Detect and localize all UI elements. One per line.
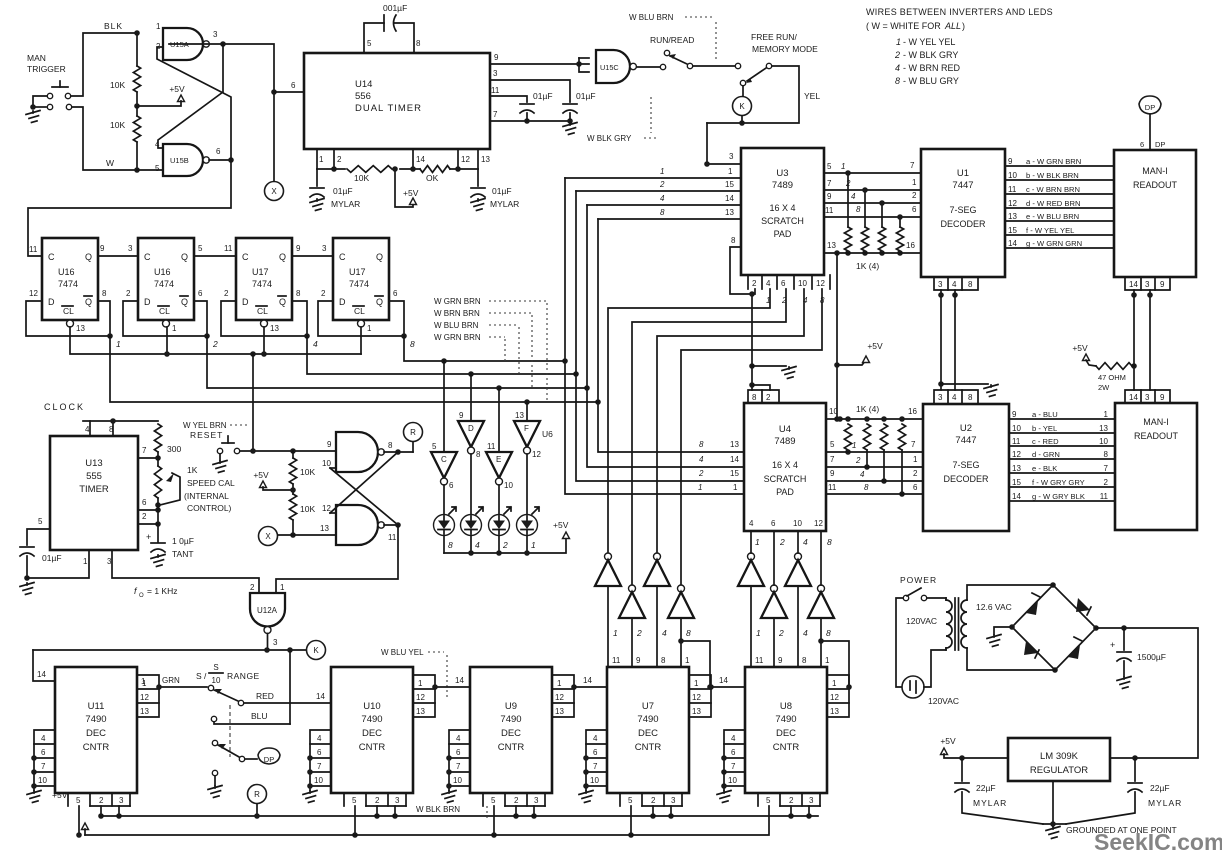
wire U1 pin13 segment e <box>1005 212 1114 221</box>
wire D loop FF1 <box>26 289 110 336</box>
svg-text:11: 11 <box>1008 185 1017 194</box>
wire <box>938 290 944 390</box>
svg-text:RUN/READ: RUN/READ <box>650 35 694 45</box>
switch S range <box>208 685 243 705</box>
svg-text:D: D <box>48 297 55 307</box>
svg-text:D: D <box>339 297 346 307</box>
ground <box>782 367 796 379</box>
ground <box>984 385 998 397</box>
svg-text:11: 11 <box>487 442 496 451</box>
svg-text:6: 6 <box>291 81 296 90</box>
svg-text:7490: 7490 <box>85 714 106 725</box>
svg-text:YEL: YEL <box>804 91 820 101</box>
wire U2 pin9 segment a <box>1009 410 1115 419</box>
resistor 1K f <box>863 424 870 470</box>
stub cells U1 bottom <box>934 277 978 290</box>
svg-text:5: 5 <box>432 442 437 451</box>
ground <box>1046 827 1060 839</box>
svg-text:7: 7 <box>1104 464 1109 473</box>
wire RESET line <box>240 448 336 454</box>
wire U1 pin14 segment g <box>1005 239 1114 248</box>
label S/S10 RANGE <box>196 663 260 685</box>
svg-text:5: 5 <box>367 39 372 48</box>
wire <box>526 454 528 514</box>
flip-flop U17 7474 #3 <box>236 238 292 327</box>
svg-text:3: 3 <box>273 638 278 647</box>
wire U3 pin8 loop <box>730 236 752 294</box>
svg-text:13: 13 <box>481 155 490 164</box>
svg-text:8: 8 <box>752 393 757 402</box>
svg-text:10: 10 <box>1099 437 1108 446</box>
svg-text:CL: CL <box>63 306 74 316</box>
wire <box>491 806 497 838</box>
svg-text:10: 10 <box>38 776 47 785</box>
svg-text:BLK: BLK <box>104 21 123 31</box>
flip-flop U16 7474 #2 <box>138 238 194 327</box>
svg-text:9: 9 <box>459 411 464 420</box>
ground <box>442 791 456 803</box>
svg-text:READOUT: READOUT <box>1133 180 1178 190</box>
svg-text:1: 1 <box>531 540 536 550</box>
svg-text:1: 1 <box>172 324 177 333</box>
svg-text:DECODER: DECODER <box>940 219 986 229</box>
svg-text:1: 1 <box>367 324 372 333</box>
wire U2 pin14 segment g <box>1009 492 1115 501</box>
svg-text:DECODER: DECODER <box>943 474 989 484</box>
svg-text:+5V: +5V <box>940 736 956 746</box>
wire U13 pin2 <box>138 512 158 524</box>
wire pin3 <box>490 69 570 102</box>
svg-text:4: 4 <box>749 519 754 528</box>
svg-text:8: 8 <box>968 393 973 402</box>
svg-text:14: 14 <box>1129 393 1138 402</box>
svg-text:10K: 10K <box>300 467 315 477</box>
stub cells U9 right <box>552 675 574 717</box>
svg-text:S: S <box>213 663 218 672</box>
svg-text:7490: 7490 <box>500 714 521 725</box>
svg-text:12: 12 <box>29 289 38 298</box>
svg-text:1: 1 <box>841 162 845 171</box>
wire <box>952 290 958 390</box>
svg-text:3: 3 <box>395 796 400 805</box>
+5V (regulator) <box>940 736 1008 761</box>
flip-flop U17 7474 #4 <box>333 238 389 327</box>
svg-text:U6: U6 <box>542 429 553 439</box>
svg-text:1: 1 <box>1104 410 1109 419</box>
wire U3-U1 line1 <box>824 161 921 173</box>
svg-text:1: 1 <box>116 339 121 349</box>
svg-text:F: F <box>524 424 529 433</box>
svg-text:WIRES BETWEEN INVERTERS AND LE: WIRES BETWEEN INVERTERS AND LEDS <box>866 7 1053 17</box>
svg-text:1K (4): 1K (4) <box>856 404 879 414</box>
svg-text:1: 1 <box>83 557 88 566</box>
wire Qb loop FF1 <box>98 289 121 349</box>
svg-text:6: 6 <box>912 205 917 214</box>
label W GRN BRN a <box>434 297 547 403</box>
wire U13 top pins <box>83 418 158 436</box>
svg-text:12: 12 <box>322 504 331 513</box>
resistor 1K a <box>844 170 851 256</box>
svg-text:2: 2 <box>142 512 147 521</box>
switch spare contact <box>212 770 217 785</box>
svg-text:Q: Q <box>279 252 286 262</box>
svg-text:13: 13 <box>827 241 836 250</box>
svg-text:9: 9 <box>327 440 332 449</box>
label CLOCK <box>44 402 85 412</box>
wire <box>994 627 1012 634</box>
svg-text:Q: Q <box>181 297 188 307</box>
inverter U5-3 <box>644 553 670 586</box>
wire U2 pin10 segment b <box>1009 424 1115 433</box>
+5V 47ohm feed <box>1072 343 1096 366</box>
svg-text:CL: CL <box>159 306 170 316</box>
svg-text:300: 300 <box>167 444 181 454</box>
svg-text:9: 9 <box>494 53 499 62</box>
svg-text:7490: 7490 <box>637 714 658 725</box>
nand gate U12A (vertical) <box>250 593 285 650</box>
svg-text:6: 6 <box>913 483 918 492</box>
wire U12A out <box>33 638 306 653</box>
svg-text:D: D <box>468 424 474 433</box>
wire <box>443 536 445 553</box>
wire U9-U7 <box>571 676 607 690</box>
svg-text:01µF: 01µF <box>42 553 62 563</box>
svg-text:6: 6 <box>41 748 46 757</box>
svg-text:1500µF: 1500µF <box>1137 652 1166 662</box>
labels inverter outputs 0 <box>612 628 691 665</box>
svg-text:- W BLK GRY: - W BLK GRY <box>903 50 958 60</box>
svg-text:5: 5 <box>628 796 633 805</box>
svg-text:12: 12 <box>1008 199 1017 208</box>
svg-text:1: 1 <box>852 441 856 450</box>
svg-text:8: 8 <box>416 39 421 48</box>
svg-text:W BLU BRN: W BLU BRN <box>434 321 479 330</box>
bridge rectifier <box>1009 585 1099 670</box>
inverter F <box>514 411 541 459</box>
svg-text:4: 4 <box>952 393 957 402</box>
label W BLU BRN <box>629 13 716 62</box>
wire cross-couple C <box>330 452 398 513</box>
svg-text:Q: Q <box>376 297 383 307</box>
svg-text:7: 7 <box>731 762 736 771</box>
svg-text:W GRN BRN: W GRN BRN <box>434 333 481 342</box>
svg-text:7489: 7489 <box>774 436 795 447</box>
svg-text:DEC: DEC <box>776 728 796 739</box>
svg-text:13: 13 <box>830 707 839 716</box>
label U14 <box>355 79 422 114</box>
wire U3 pin3 <box>704 152 741 167</box>
svg-text:4: 4 <box>699 455 704 464</box>
svg-text:01µF: 01µF <box>533 91 553 101</box>
svg-text:12: 12 <box>532 450 541 459</box>
wire U4 pin10 drop <box>798 531 808 553</box>
label GROUNDED AT ONE POINT <box>1066 825 1177 835</box>
AC plug 120VAC <box>902 676 959 706</box>
resistor 10K upper <box>110 30 141 109</box>
IC U8 7490 dec cntr <box>745 667 827 793</box>
label W BRN BRN <box>434 309 532 388</box>
svg-text:8: 8 <box>296 289 301 298</box>
svg-text:U16: U16 <box>58 267 75 277</box>
svg-text:2: 2 <box>250 583 255 592</box>
svg-text:+: + <box>146 532 151 542</box>
wire U4-U2 line3 <box>826 469 923 481</box>
svg-text:12: 12 <box>816 279 825 288</box>
svg-text:2: 2 <box>779 537 785 547</box>
svg-text:C: C <box>242 252 249 262</box>
svg-text:c - RED: c - RED <box>1032 437 1059 446</box>
svg-text:b - YEL: b - YEL <box>1032 424 1057 433</box>
svg-text:3: 3 <box>938 280 943 289</box>
svg-text:Q: Q <box>181 252 188 262</box>
svg-text:7490: 7490 <box>775 714 796 725</box>
node DP connector upper <box>1139 96 1165 150</box>
svg-text:8: 8 <box>827 537 832 547</box>
wire <box>330 512 336 514</box>
ground <box>563 123 577 135</box>
svg-text:8: 8 <box>1104 450 1109 459</box>
IC U1 7447 decoder <box>921 149 1005 277</box>
svg-text:1: 1 <box>698 483 702 492</box>
wire <box>76 806 82 838</box>
svg-text:2: 2 <box>126 289 131 298</box>
svg-text:U17: U17 <box>252 267 269 277</box>
nand gate U15A <box>156 22 218 60</box>
svg-text:9: 9 <box>778 656 783 665</box>
svg-text:U16: U16 <box>154 267 171 277</box>
svg-text:14: 14 <box>1129 280 1138 289</box>
svg-text:1: 1 <box>728 167 733 176</box>
svg-text:7489: 7489 <box>772 180 793 191</box>
svg-text:8: 8 <box>856 205 861 214</box>
wire FF1.Q-FF2.C <box>98 244 138 256</box>
switch FREE RUN/MEMORY <box>740 63 771 85</box>
capacitor 10uF TANT <box>146 532 194 559</box>
svg-text:DP: DP <box>1155 140 1165 149</box>
ground <box>987 635 1001 647</box>
svg-text:1: 1 <box>557 679 562 688</box>
svg-text:6: 6 <box>771 519 776 528</box>
resistor 10K (U14) <box>347 166 392 183</box>
svg-text:1: 1 <box>319 155 324 164</box>
stub cells U3 bottom <box>748 275 830 305</box>
svg-text:13: 13 <box>270 324 279 333</box>
svg-text:2: 2 <box>212 339 218 349</box>
svg-text:4: 4 <box>475 540 480 550</box>
svg-text:5: 5 <box>38 517 43 526</box>
svg-text:13: 13 <box>730 440 739 449</box>
svg-text:(INTERNAL: (INTERNAL <box>184 491 229 501</box>
wire <box>71 21 137 96</box>
svg-text:6: 6 <box>449 481 454 490</box>
svg-text:9: 9 <box>1160 393 1165 402</box>
wire <box>498 536 500 553</box>
svg-text:K: K <box>313 646 319 655</box>
svg-text:9: 9 <box>296 244 301 253</box>
ground <box>471 199 485 211</box>
svg-text:2: 2 <box>855 456 861 465</box>
wire YEL <box>707 66 820 126</box>
svg-text:11: 11 <box>828 483 837 492</box>
resistor 1K g <box>880 424 887 484</box>
svg-text:+: + <box>1110 640 1115 650</box>
svg-text:2: 2 <box>636 628 642 638</box>
svg-text:9: 9 <box>1008 157 1013 166</box>
wire bus1 to U3 pin1 <box>565 167 741 178</box>
svg-text:TANT: TANT <box>172 549 194 559</box>
svg-text:MAN-I: MAN-I <box>1143 417 1169 427</box>
wire CL bus <box>70 324 372 357</box>
svg-text:11: 11 <box>1100 492 1109 501</box>
svg-text:7: 7 <box>910 161 915 170</box>
svg-text:W BLU YEL: W BLU YEL <box>381 648 424 657</box>
svg-text:8: 8 <box>864 483 869 492</box>
svg-text:14: 14 <box>719 676 728 685</box>
svg-text:12: 12 <box>814 519 823 528</box>
svg-text:CNTR: CNTR <box>635 742 662 753</box>
switch power <box>903 588 926 601</box>
wire U4 right pin10 rail <box>826 404 923 422</box>
svg-text:2: 2 <box>894 50 900 60</box>
wire <box>773 618 775 667</box>
svg-text:10: 10 <box>453 776 462 785</box>
svg-text:2: 2 <box>698 469 704 478</box>
svg-text:1: 1 <box>733 483 738 492</box>
svg-text:MYLAR: MYLAR <box>1148 798 1182 808</box>
svg-text:ALL: ALL <box>944 21 961 31</box>
svg-text:10K: 10K <box>354 173 369 183</box>
svg-text:4: 4 <box>85 425 90 434</box>
svg-text:a - BLU: a - BLU <box>1032 410 1058 419</box>
inverter U6-2 <box>761 585 787 618</box>
svg-text:REGULATOR: REGULATOR <box>1030 765 1088 776</box>
wire <box>788 806 794 819</box>
svg-text:22µF: 22µF <box>1150 783 1170 793</box>
svg-text:C: C <box>144 252 151 262</box>
ground <box>27 791 41 803</box>
svg-text:8: 8 <box>102 289 107 298</box>
svg-text:14: 14 <box>730 455 739 464</box>
node X connector <box>265 89 284 200</box>
svg-text:15: 15 <box>1012 478 1021 487</box>
wire <box>924 650 946 687</box>
svg-text:13: 13 <box>1099 424 1108 433</box>
svg-text:6: 6 <box>1140 140 1144 149</box>
svg-text:1: 1 <box>613 628 618 638</box>
svg-text:11: 11 <box>825 206 834 215</box>
wire U3 pin4 route <box>608 289 770 553</box>
ground <box>151 555 165 567</box>
label W YEL BRN <box>183 421 248 430</box>
svg-text:8: 8 <box>661 656 666 665</box>
svg-text:13: 13 <box>320 524 329 533</box>
wire <box>384 449 413 455</box>
svg-text:4: 4 <box>41 734 46 743</box>
svg-text:1 0µF: 1 0µF <box>172 536 194 546</box>
svg-text:10: 10 <box>793 519 802 528</box>
LED F <box>517 507 540 550</box>
svg-text:16: 16 <box>906 241 915 250</box>
wire secondary bottom <box>967 648 1058 673</box>
wire <box>656 586 658 667</box>
svg-text:MEMORY MODE: MEMORY MODE <box>752 44 818 54</box>
svg-text:e - W BLU BRN: e - W BLU BRN <box>1026 212 1079 221</box>
svg-text:7-SEG: 7-SEG <box>952 460 979 470</box>
svg-text:+5V: +5V <box>52 790 68 800</box>
svg-text:556: 556 <box>355 91 371 102</box>
svg-text:Q: Q <box>279 297 286 307</box>
svg-text:7: 7 <box>593 762 598 771</box>
svg-text:10: 10 <box>1012 424 1021 433</box>
svg-text:11: 11 <box>388 533 397 542</box>
svg-text:DP: DP <box>1145 103 1155 112</box>
svg-text:7: 7 <box>827 179 832 188</box>
inverter U5-1 <box>595 553 621 586</box>
wire <box>628 806 634 838</box>
svg-text:14: 14 <box>725 194 734 203</box>
label 120VAC primary <box>906 616 937 626</box>
wire U8 pin1 loop <box>818 638 852 690</box>
svg-text:10: 10 <box>798 279 807 288</box>
wire <box>531 806 537 819</box>
svg-text:4: 4 <box>952 280 957 289</box>
wire pin9 <box>490 53 589 72</box>
svg-text:LM 309K: LM 309K <box>1040 751 1079 762</box>
LED D <box>461 507 484 550</box>
capacitor 01uF a <box>520 91 553 113</box>
svg-text:47 OHM: 47 OHM <box>1098 373 1126 382</box>
svg-text:5: 5 <box>76 796 81 805</box>
svg-text:15: 15 <box>730 469 739 478</box>
wire U4-U2 line2 <box>826 455 923 467</box>
svg-text:6: 6 <box>731 748 736 757</box>
wire U1 pin15 segment f <box>1005 226 1114 235</box>
wire <box>693 63 741 68</box>
+5V (latch) <box>253 470 291 490</box>
nand gate U15B <box>155 140 221 176</box>
resistor 47 OHM 2W <box>1096 363 1134 392</box>
svg-text:12: 12 <box>692 693 701 702</box>
svg-text:2: 2 <box>752 279 757 288</box>
svg-text:W: W <box>106 158 114 168</box>
ground <box>717 791 731 803</box>
label f0 = 1KHz <box>134 586 177 599</box>
svg-text:W BLU BRN: W BLU BRN <box>629 13 674 22</box>
switch DP gang dashes <box>229 705 231 757</box>
svg-text:1: 1 <box>832 679 837 688</box>
wire <box>470 454 472 514</box>
svg-text:3: 3 <box>493 69 498 78</box>
svg-text:1: 1 <box>756 628 761 638</box>
ground <box>310 199 324 211</box>
svg-text:Q: Q <box>376 252 383 262</box>
label W BLK GRY <box>587 97 658 143</box>
svg-text:b - W BLK BRN: b - W BLK BRN <box>1026 171 1079 180</box>
wire <box>169 41 274 92</box>
wire <box>1147 290 1153 390</box>
wire U13 pin1 <box>27 550 89 578</box>
IC U2 7447 decoder <box>923 404 1009 531</box>
svg-text:SCRATCH: SCRATCH <box>764 474 807 484</box>
svg-text:11: 11 <box>1012 437 1021 446</box>
wire <box>72 107 137 170</box>
svg-text:2: 2 <box>789 796 794 805</box>
svg-text:120VAC: 120VAC <box>906 616 937 626</box>
stub cells U7 bottom <box>620 793 682 806</box>
svg-text:MYLAR: MYLAR <box>490 199 519 209</box>
wire bus4 to U3 pin14 <box>587 194 741 205</box>
svg-text:- W YEL YEL: - W YEL YEL <box>903 37 955 47</box>
